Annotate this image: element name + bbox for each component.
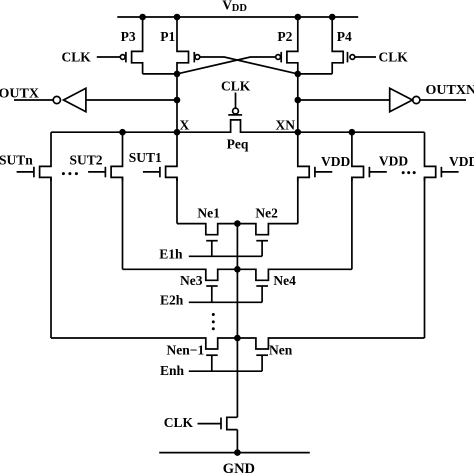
wire CLK to P4 gate xyxy=(355,56,376,58)
transistor CLK tail xyxy=(164,415,238,430)
wire VDD-A source column xyxy=(297,177,299,223)
svg-text:P1: P1 xyxy=(160,29,175,44)
svg-text:Ne4: Ne4 xyxy=(273,273,296,288)
ellipsis dots between VDD-B and VDD-C xyxy=(402,171,416,174)
svg-text:VDD: VDD xyxy=(449,154,474,169)
junction dot X line SUT1 xyxy=(174,129,181,136)
transistor P2 xyxy=(276,17,298,74)
svg-text:Enh: Enh xyxy=(160,363,185,378)
junction dot bus2 center xyxy=(234,266,241,273)
transistor P4 xyxy=(332,17,355,74)
transistor VDD-A xyxy=(298,132,351,181)
svg-text:Nen−1: Nen−1 xyxy=(167,342,205,357)
transistor VDD-B xyxy=(352,132,408,181)
junction dot node X drains xyxy=(174,71,181,78)
wire E1h line xyxy=(189,255,262,257)
svg-text:CLK: CLK xyxy=(221,79,251,94)
wire center tail column xyxy=(236,224,238,418)
wire Enh line xyxy=(189,370,262,372)
wire X-XN line with Peq channel bump xyxy=(51,120,425,132)
wire bus1 with Ne1 Ne2 channel dips xyxy=(177,224,298,235)
transistor Ne4 xyxy=(256,273,296,302)
transistor SUT1 xyxy=(129,132,177,181)
junction dot GND xyxy=(234,449,241,456)
junction dot bus1 center xyxy=(234,220,241,227)
svg-text:CLK: CLK xyxy=(62,49,92,64)
wire VDD rail xyxy=(117,16,358,18)
transistor Nen xyxy=(256,342,292,371)
wire tail to GND xyxy=(236,430,238,453)
junction dot X inverter tap xyxy=(174,97,181,104)
transistor P1 xyxy=(160,17,200,74)
wire bus2 with Ne3 Ne4 channel dips xyxy=(123,269,352,280)
wire SUT2 source column xyxy=(122,177,124,269)
wire XN to inverter input xyxy=(298,99,390,101)
inverter OUTX xyxy=(14,88,86,111)
junction dot node XN drains xyxy=(295,71,302,78)
svg-text:XN: XN xyxy=(276,117,296,132)
junction dot XN inverter tap xyxy=(295,97,302,104)
svg-text:DD: DD xyxy=(232,3,248,14)
wire VDD-C source column xyxy=(424,177,426,338)
wire SUT1 source column xyxy=(176,177,178,223)
vertical ellipsis dots repeated stages xyxy=(212,313,215,330)
wire X to inverter input xyxy=(86,99,177,101)
svg-text:SUTn: SUTn xyxy=(0,153,33,168)
wire CLK to P3 gate xyxy=(97,56,120,58)
svg-text:SUT2: SUT2 xyxy=(70,153,103,168)
svg-text:X: X xyxy=(180,117,190,132)
transistor SUT2 xyxy=(70,132,123,181)
junction dot XN line A xyxy=(295,129,302,136)
junction dot X line SUT2 xyxy=(119,129,126,136)
transistor Ne3 xyxy=(180,273,218,302)
transistor VDD-C xyxy=(425,132,474,181)
junction dot VDD-P2 xyxy=(295,14,302,21)
svg-text:V: V xyxy=(222,0,232,12)
svg-text:Nen: Nen xyxy=(269,342,293,357)
wire E2h line xyxy=(189,301,262,303)
junction dot VDD-P3 xyxy=(139,14,146,21)
wire GND rail xyxy=(159,452,310,454)
svg-text:Ne2: Ne2 xyxy=(255,206,278,221)
ellipsis dots between SUTn and SUT2 xyxy=(62,172,78,175)
wire P3 drain to node X xyxy=(143,73,177,75)
svg-text:OUTXN: OUTXN xyxy=(426,83,474,98)
svg-text:Ne1: Ne1 xyxy=(197,206,220,221)
svg-text:E2h: E2h xyxy=(160,292,184,307)
net label VDD xyxy=(222,0,247,14)
transistor Peq xyxy=(227,93,249,152)
wire XN column xyxy=(297,74,299,132)
svg-text:SUT1: SUT1 xyxy=(129,150,162,165)
svg-text:P4: P4 xyxy=(337,29,352,44)
wire X column xyxy=(176,74,178,132)
transistor SUTn xyxy=(0,132,51,181)
transistor P3 xyxy=(120,17,142,74)
wire cross-couple P1 gate to node XN xyxy=(200,57,298,74)
wire P4 drain to node XN xyxy=(298,73,332,75)
junction dot XN line B xyxy=(349,129,356,136)
inverter OUTXN xyxy=(390,88,466,111)
transistor Ne1 xyxy=(197,206,220,257)
svg-text:OUTX: OUTX xyxy=(0,87,39,102)
svg-text:GND: GND xyxy=(223,461,255,473)
svg-text:CLK: CLK xyxy=(379,50,409,65)
svg-text:P3: P3 xyxy=(121,29,136,44)
junction dot VDD-P1 xyxy=(174,14,181,21)
svg-text:Ne3: Ne3 xyxy=(180,273,203,288)
wire VDD-B source column xyxy=(351,177,353,269)
transistor Ne2 xyxy=(255,206,278,257)
svg-text:VDD: VDD xyxy=(321,154,350,169)
wire bus3 with Nen-1 Nen channel dips xyxy=(51,338,425,349)
junction dot VDD-P4 xyxy=(329,14,336,21)
junction dot bus3 center xyxy=(234,335,241,342)
wire SUTn source column xyxy=(50,177,52,338)
svg-text:E1h: E1h xyxy=(159,246,183,261)
svg-text:Peq: Peq xyxy=(227,137,249,152)
svg-text:CLK: CLK xyxy=(164,415,194,430)
svg-text:VDD: VDD xyxy=(379,154,408,169)
wire cross-couple P2 gate to node X xyxy=(177,57,276,74)
svg-text:P2: P2 xyxy=(277,29,292,44)
transistor Nen-1 xyxy=(167,342,218,371)
